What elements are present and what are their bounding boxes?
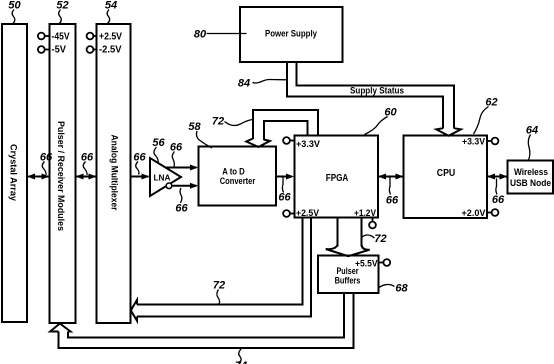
svg-text:72: 72 bbox=[374, 233, 386, 245]
wire CPU to USB node (bidirectional) bbox=[487, 176, 508, 178]
wire mux to LNA bbox=[131, 176, 149, 178]
terminal FPGA +2.5V bbox=[283, 210, 290, 217]
svg-text:-5V: -5V bbox=[52, 45, 67, 56]
A to D converter box 58 bbox=[199, 147, 277, 206]
svg-text:64: 64 bbox=[526, 125, 538, 137]
svg-text:+2.5V: +2.5V bbox=[99, 32, 122, 43]
wire LNA top output to ADC bbox=[166, 167, 197, 169]
svg-text:80: 80 bbox=[194, 29, 207, 41]
svg-text:+1.2V: +1.2V bbox=[354, 208, 377, 219]
svg-text:66: 66 bbox=[170, 142, 183, 154]
bus FPGA to ADC (hollow, 72) bbox=[253, 110, 318, 139]
svg-text:Converter: Converter bbox=[220, 176, 256, 187]
svg-text:66: 66 bbox=[81, 152, 94, 164]
svg-text:+2.0V: +2.0V bbox=[462, 208, 487, 219]
wire LNA bottom output to ADC bbox=[172, 185, 197, 187]
svg-text:-2.5V: -2.5V bbox=[99, 45, 122, 56]
bus power supply to CPU (supply status, 84) bbox=[297, 62, 455, 129]
pulser buffers box 68 bbox=[318, 256, 379, 294]
svg-text:66: 66 bbox=[40, 152, 53, 164]
wire FPGA to CPU (bidirectional) bbox=[378, 176, 404, 178]
svg-text:66: 66 bbox=[386, 195, 399, 207]
svg-text:-45V: -45V bbox=[52, 32, 70, 43]
svg-text:56: 56 bbox=[152, 137, 165, 149]
pulser/receiver modules box 52 bbox=[50, 24, 76, 323]
svg-text:Crystal Array: Crystal Array bbox=[9, 144, 19, 201]
CPU box 62 bbox=[404, 136, 488, 219]
svg-text:58: 58 bbox=[188, 121, 201, 133]
terminal +2.5V mux bbox=[87, 33, 94, 40]
wire ADC to FPGA bbox=[276, 176, 292, 178]
svg-text:52: 52 bbox=[56, 0, 68, 12]
terminal CPU +2.0V bbox=[492, 209, 499, 216]
svg-text:Buffers: Buffers bbox=[335, 275, 361, 285]
svg-text:50: 50 bbox=[8, 0, 21, 12]
svg-text:CPU: CPU bbox=[437, 167, 456, 179]
svg-text:Wireless: Wireless bbox=[514, 167, 548, 177]
svg-text:+2.5V: +2.5V bbox=[296, 208, 320, 219]
svg-text:Power Supply: Power Supply bbox=[265, 29, 317, 39]
svg-text:66: 66 bbox=[278, 192, 291, 204]
svg-text:LNA: LNA bbox=[154, 174, 171, 183]
svg-text:72: 72 bbox=[212, 116, 224, 128]
wireless USB node box 64 bbox=[508, 161, 554, 194]
svg-text:66: 66 bbox=[133, 152, 146, 164]
bus FPGA to analog mux (feedback, 72) bbox=[137, 218, 303, 305]
svg-text:+3.3V: +3.3V bbox=[296, 139, 321, 150]
bus FPGA to pulser buffers (hollow, 72) bbox=[337, 218, 339, 247]
svg-text:+5.5V: +5.5V bbox=[355, 258, 378, 269]
wire pulser to mux (bidirectional) bbox=[76, 176, 97, 178]
svg-text:68: 68 bbox=[395, 283, 408, 295]
wire crystal to pulser (bidirectional) bbox=[27, 176, 50, 178]
op-amp LNA 56 bbox=[150, 158, 181, 196]
svg-text:FPGA: FPGA bbox=[326, 172, 349, 184]
crystal array box 50 bbox=[2, 24, 27, 322]
terminal FPGA +3.3V bbox=[283, 137, 290, 144]
LNA inverting output bubble bbox=[166, 183, 172, 189]
terminal FPGA +1.2V bbox=[369, 222, 376, 229]
svg-text:72: 72 bbox=[213, 280, 225, 292]
terminal -5V bbox=[38, 46, 45, 53]
svg-text:Supply Status: Supply Status bbox=[350, 85, 404, 96]
svg-text:84: 84 bbox=[238, 78, 250, 90]
terminal -2.5V mux bbox=[87, 46, 94, 53]
svg-text:Analog Multiplexer: Analog Multiplexer bbox=[110, 135, 120, 211]
svg-text:Pulser / Receiver Modules: Pulser / Receiver Modules bbox=[56, 121, 66, 231]
svg-text:54: 54 bbox=[105, 0, 117, 12]
svg-text:66: 66 bbox=[492, 194, 505, 206]
terminal CPU +3.3V bbox=[492, 138, 499, 145]
svg-text:66: 66 bbox=[175, 203, 188, 215]
analog multiplexer box 54 bbox=[97, 24, 131, 323]
power supply box 80 bbox=[240, 7, 343, 62]
terminal pulser buffers +5.5V bbox=[383, 259, 390, 266]
terminal -45V bbox=[38, 33, 45, 40]
svg-text:+3.3V: +3.3V bbox=[462, 136, 486, 147]
svg-text:USB Node: USB Node bbox=[510, 178, 551, 188]
bus pulser buffers to pulser/receiver (feedback, 74) bbox=[68, 294, 344, 338]
FPGA box 60 bbox=[295, 136, 379, 218]
